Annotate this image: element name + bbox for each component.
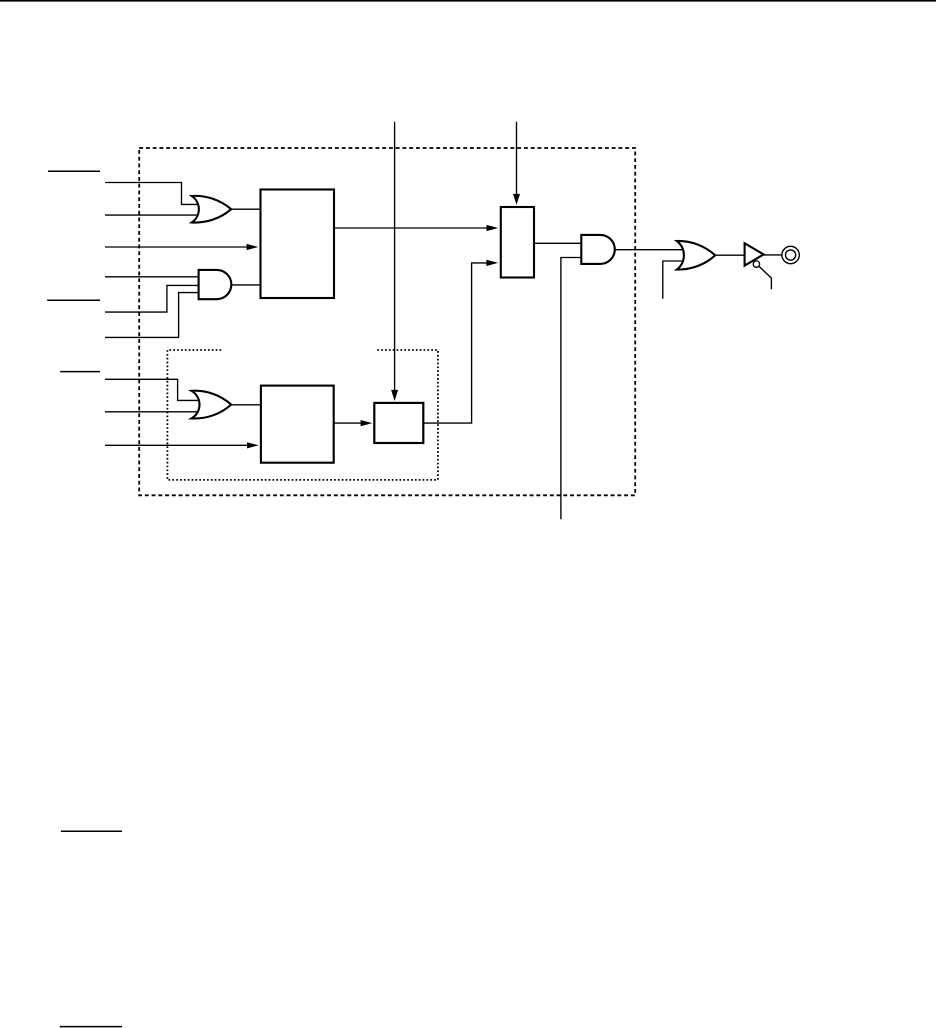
wire block3 output to block4 [424, 263, 488, 423]
arrowhead into block3 top [391, 390, 398, 401]
block2 (lower control block) [261, 386, 334, 463]
wire block2 output to block3 [334, 422, 362, 424]
wire block4 output to AND2 pin1 [535, 242, 584, 244]
and-gate AND1 [199, 270, 232, 299]
wire block1 output to block4 [334, 227, 488, 229]
wire input 8 to OR2 pin2 [105, 411, 200, 413]
wire input 9 to block2 [105, 444, 248, 446]
arrowhead into block4 top [513, 194, 520, 205]
arrowhead into block2 [247, 442, 259, 448]
wire input 4 to AND1 pin1 [105, 276, 202, 278]
and-gate AND2 [581, 235, 615, 264]
wire vertical control line A into block3 [394, 122, 396, 391]
wire buffer output to pad [764, 254, 783, 256]
overbar over input label 1 [48, 170, 100, 172]
arrowhead into block3 left [361, 420, 373, 426]
wire input 6 to AND1 pin3 [105, 293, 202, 338]
wire input 5 to AND1 pin2 [105, 285, 202, 312]
arrowhead into block4 pin2 [486, 260, 498, 266]
wire AND2 output to OR3 pin1 [614, 249, 687, 251]
output buffer triangle [745, 243, 764, 265]
overbar in note text line 2 [60, 1026, 122, 1028]
outer dashed box [139, 148, 635, 495]
inner dotted box [167, 350, 438, 480]
wire input 3 to block1 [105, 246, 248, 248]
block3 (small block) [374, 403, 423, 443]
block4 (selector block) [501, 207, 534, 278]
arrowhead into block1 [247, 244, 259, 250]
pad inner circle [786, 250, 796, 260]
wire enable line to AND2 pin2 [561, 258, 583, 520]
wire OR2 output to block2 [231, 404, 261, 406]
arrowhead into block4 pin1 [487, 225, 499, 231]
or-gate OR3 [677, 241, 715, 270]
block1 (interrupt control block) [261, 190, 335, 299]
wire input 1 to OR1 pin1 [105, 183, 200, 205]
wire OR3 output to buffer [714, 254, 745, 256]
overbar over input label 2 [47, 299, 100, 301]
pad outer circle [782, 246, 799, 263]
overbar in note text line 1 [61, 830, 122, 832]
wire input 7 to OR2 pin1 [105, 379, 200, 400]
or-gate OR2 [192, 391, 232, 419]
wire AND1 output to block1 [230, 284, 261, 286]
top rule [0, 0, 936, 2]
buffer enable bubble [753, 261, 759, 267]
wire vertical control line B into block4 [516, 122, 518, 195]
or-gate OR1 [192, 196, 231, 223]
wire buffer enable diagonal [759, 267, 771, 290]
wire enable line to OR3 pin2 [663, 261, 684, 299]
wire OR1 output to block1 [230, 208, 261, 210]
overbar over input label 3 [60, 371, 100, 373]
wire input 2 to OR1 pin2 [105, 214, 200, 216]
